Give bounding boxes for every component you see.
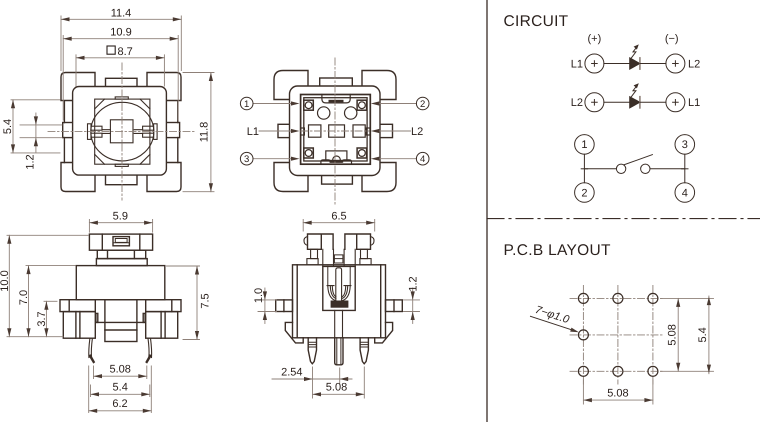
svg-text:4: 4 bbox=[682, 187, 688, 199]
arrows 5.4 bbox=[11, 100, 15, 109]
svg-text:6.2: 6.2 bbox=[112, 398, 127, 410]
dim 6.5 extension lines bbox=[303, 220, 375, 232]
cap tab bottom bbox=[322, 165, 353, 185]
pin extension lines bbox=[89, 366, 152, 413]
arrows 7.5 bbox=[195, 266, 199, 275]
right contact bracket bbox=[154, 124, 158, 140]
wing right inner edge a bbox=[164, 312, 166, 339]
terminal circle 1 bbox=[575, 135, 595, 155]
pcb dim 5.08 bottom line bbox=[583, 399, 653, 401]
corner contact bottom-right bbox=[357, 148, 367, 158]
LED D1 flash arrow bbox=[631, 47, 637, 59]
arrows 3.7 bbox=[44, 301, 48, 310]
edge tab right bbox=[378, 124, 393, 137]
keycap window outer bbox=[113, 237, 129, 246]
centerline horizontal bbox=[301, 130, 369, 132]
latch hook left bbox=[96, 313, 98, 322]
svg-text:L1: L1 bbox=[571, 58, 583, 70]
arrows 6.5 bbox=[303, 221, 312, 225]
terminal circle row1 left bbox=[585, 54, 604, 73]
svg-text:1: 1 bbox=[581, 139, 587, 151]
wing left inner edge a bbox=[75, 312, 77, 339]
wire horizontal right bbox=[650, 168, 685, 170]
arrows pcb 5.08 vertical bbox=[676, 298, 680, 307]
cap tab top inner line bbox=[320, 87, 353, 89]
bottom led housing bbox=[326, 151, 347, 161]
right contact rod bbox=[134, 130, 142, 134]
mount right foot bbox=[360, 259, 371, 265]
corner chamfer bottom-left bbox=[95, 154, 105, 164]
leader line terminal 2 bbox=[375, 103, 417, 105]
inner frame bump bottom bbox=[115, 164, 128, 166]
dim 8.7 extension lines bbox=[76, 55, 164, 86]
arrows 8.7 bbox=[76, 56, 85, 60]
dim 10.9 line bbox=[63, 38, 178, 40]
keycap base bbox=[97, 250, 145, 258]
corner tab bottom-right bbox=[147, 163, 181, 192]
dim 1.0 leaders bbox=[258, 300, 277, 312]
dim 10.9 extension lines bbox=[63, 36, 178, 121]
dim 5.9 line bbox=[89, 222, 152, 224]
pin left foot bbox=[88, 354, 95, 363]
junction tick right bbox=[682, 168, 688, 170]
svg-text:4: 4 bbox=[420, 154, 425, 165]
inner frame bump top bbox=[115, 97, 128, 99]
dim 3.7 line bbox=[45, 301, 47, 336]
arrows pcb 5.08 bottom bbox=[583, 398, 592, 402]
svg-text:5.08: 5.08 bbox=[666, 324, 678, 345]
LED D2 flash arrow bbox=[631, 86, 637, 98]
svg-text:L1: L1 bbox=[688, 97, 700, 109]
main body square bbox=[290, 86, 381, 176]
corner chamfer top-right bbox=[140, 99, 150, 109]
svg-text:6.5: 6.5 bbox=[331, 211, 346, 223]
plus sign row2 right bbox=[673, 100, 679, 106]
plunger circle bbox=[91, 102, 154, 161]
switch contact circle left bbox=[616, 164, 625, 173]
side contact right bbox=[366, 128, 370, 135]
leader line L2 bbox=[375, 130, 411, 132]
svg-text:7.0: 7.0 bbox=[18, 290, 30, 305]
keycap base notch left bbox=[107, 250, 109, 258]
dim 11.4 line bbox=[61, 18, 181, 20]
svg-text:11.4: 11.4 bbox=[111, 7, 132, 19]
corner contact bottom-left bbox=[304, 148, 314, 158]
svg-text:2.54: 2.54 bbox=[281, 366, 302, 378]
switch lever bbox=[624, 155, 653, 165]
terminal circle row1 right bbox=[666, 54, 685, 73]
svg-text:L2: L2 bbox=[411, 126, 423, 138]
svg-text:(+): (+) bbox=[588, 33, 602, 45]
hole callout arrowhead bbox=[570, 328, 579, 335]
mid square right bbox=[353, 125, 365, 137]
side tab right bbox=[386, 300, 403, 312]
arrows 10.0 bbox=[7, 235, 11, 244]
centerline vertical bbox=[121, 63, 123, 200]
spring right arcs bbox=[342, 286, 351, 301]
svg-text:P.C.B LAYOUT: P.C.B LAYOUT bbox=[504, 242, 611, 259]
leader line terminal 4 bbox=[375, 158, 417, 160]
LED D1 cathode bar bbox=[639, 58, 641, 69]
leader line L1 bbox=[259, 130, 295, 132]
pin right foot bbox=[145, 354, 152, 363]
wire vertical right bbox=[684, 154, 686, 183]
svg-text:1.2: 1.2 bbox=[408, 276, 420, 291]
wing left bbox=[63, 312, 95, 339]
hole A3 bbox=[648, 293, 658, 303]
dim 1.0 line bbox=[264, 288, 266, 324]
terminal circle 4 bbox=[416, 152, 429, 165]
mid square center bbox=[329, 125, 345, 137]
dim text square symbol bbox=[107, 46, 115, 54]
hole C2 bbox=[613, 366, 623, 376]
cap window bar bbox=[329, 100, 344, 103]
led hole right bbox=[345, 107, 357, 119]
arrow terminal 2 bbox=[371, 101, 380, 105]
hole A1 bbox=[578, 293, 588, 303]
corner tab top-right bbox=[147, 73, 181, 101]
svg-text:11.8: 11.8 bbox=[199, 122, 211, 143]
keycap top bbox=[89, 234, 152, 250]
corner tab top-left bbox=[274, 71, 308, 100]
dim 7.0 line bbox=[28, 266, 30, 337]
arrow terminal 4 bbox=[371, 157, 380, 161]
body inner edge right bbox=[380, 265, 382, 338]
grid centerline row mid bbox=[570, 334, 664, 336]
pcb dim 5.08 bottom extension lines bbox=[583, 379, 653, 405]
spring left arcs bbox=[327, 286, 336, 301]
arrows 5.08 bbox=[313, 392, 322, 396]
arrow terminal 1 bbox=[291, 101, 300, 105]
plunger pin bbox=[336, 268, 342, 301]
plus sign row1 right bbox=[673, 61, 679, 67]
arrows 5.4 bbox=[91, 392, 100, 396]
corner contact bottom-left circle bbox=[305, 150, 312, 157]
corner tab bottom-left bbox=[274, 163, 308, 192]
arrows 2.54 outside bbox=[304, 377, 313, 381]
grid centerline col mid bbox=[617, 286, 619, 385]
dim 5.08 line bbox=[313, 393, 365, 395]
wing right inner edge b bbox=[160, 312, 162, 339]
junction tick left bbox=[581, 168, 587, 170]
arrows pcb 5.4 vertical bbox=[707, 297, 711, 306]
hole A2 bbox=[613, 293, 623, 303]
plus sign row2 left bbox=[592, 100, 598, 106]
LED row 1 bbox=[571, 44, 701, 73]
center block bbox=[105, 300, 137, 342]
LED D1 triangle bbox=[630, 58, 640, 69]
bottom plate bbox=[321, 160, 352, 165]
arrow terminal 3 bbox=[291, 157, 300, 161]
svg-text:8.7: 8.7 bbox=[118, 46, 133, 58]
base plate inner square bbox=[304, 98, 367, 161]
pcb dim 5.4 vertical line bbox=[708, 296, 710, 374]
center block shelf line bbox=[96, 321, 145, 323]
pin left claw bbox=[89, 338, 93, 357]
svg-text:3: 3 bbox=[682, 139, 688, 151]
ear left hook bbox=[304, 237, 308, 246]
terminal circle 3 bbox=[675, 135, 695, 155]
pin left bbox=[308, 338, 316, 364]
dim 11.8 line bbox=[210, 73, 212, 192]
dim 5.4 leaders bbox=[11, 100, 60, 153]
edge tab bottom bbox=[106, 170, 138, 185]
left contact pad lower bbox=[91, 133, 102, 137]
arrows 5.08 bbox=[94, 374, 103, 378]
pcb dim leaders right bbox=[661, 298, 714, 371]
wire row2 right bbox=[640, 101, 666, 103]
keycap divider right bbox=[139, 234, 141, 250]
dim 1.2 line bbox=[35, 113, 37, 152]
dim 5.9 extension lines bbox=[89, 220, 152, 233]
switch contact circle right bbox=[641, 164, 650, 173]
corner tab bottom-right bbox=[362, 163, 396, 192]
pin right hatch bbox=[360, 342, 368, 347]
grid centerline col right bbox=[652, 286, 654, 385]
arrows 1.2 outside bbox=[411, 291, 415, 300]
svg-text:5.08: 5.08 bbox=[326, 382, 347, 394]
collar right divider bbox=[171, 300, 173, 312]
keycap window inner bbox=[115, 239, 127, 243]
svg-text:L2: L2 bbox=[688, 58, 700, 70]
left contact bracket bbox=[88, 124, 92, 140]
dim 6.5 line bbox=[303, 222, 375, 224]
centerline horizontal bbox=[48, 131, 194, 133]
pin right bbox=[360, 338, 368, 364]
terminal circle row2 right bbox=[666, 93, 685, 112]
svg-text:10.0: 10.0 bbox=[0, 270, 11, 291]
body inner edge left bbox=[296, 265, 298, 338]
edge tab left bbox=[278, 124, 293, 137]
switch sub-circuit bbox=[575, 135, 695, 203]
right contact pad upper bbox=[143, 126, 154, 130]
body outline bbox=[293, 265, 386, 338]
corner tab top-right bbox=[362, 71, 396, 100]
mount left neck bbox=[311, 249, 318, 258]
side tab right divider bbox=[393, 300, 395, 312]
terminal circle 1 bbox=[240, 97, 253, 110]
keycap base notch right bbox=[133, 250, 135, 258]
ear right bbox=[345, 234, 371, 249]
keycap divider left bbox=[101, 234, 103, 250]
svg-text:5.4: 5.4 bbox=[697, 327, 709, 342]
collar left divider bbox=[68, 300, 70, 312]
corner chamfer bottom-right bbox=[140, 154, 150, 164]
hole C3 bbox=[648, 366, 658, 376]
dim 5.08 line bbox=[94, 375, 147, 377]
dim 7.5 leaders bbox=[167, 266, 200, 340]
pin extension lines view4 bbox=[313, 367, 365, 398]
terminal circle 4 bbox=[675, 183, 695, 203]
LED D2 cathode bar bbox=[639, 97, 641, 108]
grid centerline row top bbox=[570, 297, 664, 299]
corner tab bottom-left bbox=[61, 163, 95, 192]
svg-text:3.7: 3.7 bbox=[36, 311, 48, 326]
edge tab top bbox=[106, 78, 138, 94]
latch hook right bbox=[143, 313, 145, 322]
svg-text:10.9: 10.9 bbox=[110, 27, 131, 39]
bottom led dome bbox=[333, 156, 341, 160]
arrows 1.0 outside bbox=[263, 291, 267, 300]
center block lower line bbox=[105, 329, 137, 331]
svg-text:2: 2 bbox=[420, 99, 425, 110]
mount right neck bbox=[361, 249, 368, 258]
svg-text:1.0: 1.0 bbox=[253, 288, 265, 303]
dim 11.8 leaders bbox=[183, 73, 214, 192]
corner contact top-right bbox=[357, 100, 367, 110]
mid square left bbox=[309, 125, 321, 137]
terminal circle row2 left bbox=[585, 93, 604, 112]
cap tab top bbox=[320, 78, 353, 95]
wire horizontal left bbox=[584, 168, 616, 170]
svg-text:5.08: 5.08 bbox=[109, 364, 130, 376]
dim 10.0 line bbox=[8, 235, 10, 336]
ear left bbox=[308, 234, 334, 249]
hole C1 bbox=[578, 366, 588, 376]
skirt wall right bbox=[177, 101, 179, 162]
arrows 6.2 bbox=[89, 409, 98, 413]
mount left foot bbox=[307, 259, 318, 265]
pin right claw bbox=[148, 338, 152, 357]
panel divider horizontal dash-dot line bbox=[487, 218, 760, 220]
pin shank in body bbox=[335, 310, 343, 337]
svg-text:(−): (−) bbox=[665, 33, 679, 45]
led hole left bbox=[318, 107, 330, 119]
corner tab top-left bbox=[61, 73, 95, 101]
ear right hook bbox=[371, 237, 375, 246]
sleeve bbox=[323, 266, 355, 310]
panel divider vertical line bbox=[486, 0, 488, 422]
tower right bbox=[344, 249, 355, 266]
plus sign row1 left bbox=[592, 61, 598, 67]
shaft grooves bbox=[334, 255, 343, 263]
corner chamfer top-left bbox=[95, 99, 105, 109]
pin left hatch bbox=[308, 342, 316, 347]
foot left bbox=[285, 322, 303, 343]
edge tab left bbox=[63, 123, 78, 138]
grid centerline row bottom bbox=[570, 370, 664, 372]
wing left inner edge b bbox=[79, 312, 81, 339]
pin center inner lines bbox=[337, 338, 341, 365]
arrows 10.9 bbox=[63, 37, 71, 41]
foot right bbox=[375, 322, 393, 343]
collar left bbox=[60, 300, 95, 312]
arrow L1 bbox=[291, 129, 300, 133]
svg-text:CIRCUIT: CIRCUIT bbox=[504, 13, 569, 30]
side tab left divider bbox=[283, 300, 285, 312]
wire row1 right bbox=[640, 63, 666, 65]
center square plunger boss bbox=[110, 120, 133, 143]
terminal circle 3 bbox=[240, 152, 253, 165]
svg-text:2: 2 bbox=[581, 187, 587, 199]
dim 3.7 leader top bbox=[44, 300, 57, 302]
bottom plate bar bbox=[330, 160, 343, 163]
pin center bbox=[335, 338, 343, 365]
svg-text:5.08: 5.08 bbox=[607, 387, 628, 399]
terminal circle 2 bbox=[575, 183, 595, 203]
svg-text:3: 3 bbox=[244, 154, 249, 165]
corner contact top-left bbox=[304, 100, 314, 110]
svg-text:L2: L2 bbox=[571, 97, 583, 109]
contact plug bbox=[331, 301, 347, 307]
svg-text:L1: L1 bbox=[247, 126, 259, 138]
main body square bbox=[73, 87, 167, 176]
hole callout arrow line bbox=[531, 316, 577, 331]
arrows 11.4 bbox=[61, 17, 70, 21]
leader line terminal 1 bbox=[253, 103, 295, 105]
base plate outer square bbox=[301, 95, 371, 165]
dim 8.7 line bbox=[76, 57, 164, 59]
arrows 11.8 bbox=[209, 73, 213, 82]
sleeve inner walls bbox=[328, 266, 350, 285]
arrow L2 bbox=[371, 129, 380, 133]
wire row2 left bbox=[604, 101, 630, 103]
side tab left bbox=[276, 300, 293, 312]
dim 2.54 line bbox=[272, 378, 352, 380]
corner contact top-left circle bbox=[305, 102, 312, 109]
left contact pad upper bbox=[91, 126, 102, 130]
LED D2 triangle bbox=[630, 97, 640, 108]
left contact rod bbox=[102, 130, 110, 134]
svg-text:1.2: 1.2 bbox=[25, 154, 37, 169]
corner contact bottom-right circle bbox=[359, 150, 366, 157]
dim 5.4 line bbox=[91, 393, 150, 395]
arrows 5.9 bbox=[89, 221, 98, 225]
corner contact top-right circle bbox=[359, 102, 366, 109]
arrows 1.2 outside bbox=[34, 116, 38, 125]
dim 5.4 line bbox=[12, 100, 14, 153]
svg-text:5.4: 5.4 bbox=[2, 119, 14, 134]
side contact left bbox=[301, 128, 305, 135]
svg-text:5.9: 5.9 bbox=[113, 211, 128, 223]
dim 10.0 leaders bbox=[7, 235, 88, 336]
dim 6.2 line bbox=[89, 410, 152, 412]
cap window under top tab bbox=[322, 95, 350, 103]
keycap window line bbox=[113, 242, 129, 244]
svg-text:5.4: 5.4 bbox=[113, 382, 128, 394]
grid centerline col left bbox=[582, 286, 584, 385]
arrows 7.0 bbox=[26, 266, 30, 275]
collar right bbox=[146, 300, 181, 312]
leader line terminal 3 bbox=[253, 158, 295, 160]
wing right bbox=[146, 312, 178, 339]
pcb dim 5.08 vertical line bbox=[677, 298, 679, 371]
terminal circle 2 bbox=[416, 97, 429, 110]
dim 7.0 leader top bbox=[26, 265, 75, 267]
wire vertical left bbox=[583, 154, 585, 183]
inner frame square bbox=[95, 99, 150, 164]
LED row 2 bbox=[571, 83, 701, 112]
svg-text:1: 1 bbox=[244, 99, 249, 110]
dim 7.5 line bbox=[196, 266, 198, 340]
stem flange bbox=[96, 259, 147, 266]
skirt wall left bbox=[63, 101, 65, 162]
wire row1 left bbox=[604, 63, 630, 65]
dim 1.2 leaders bbox=[20, 125, 62, 138]
body outline bbox=[76, 266, 165, 300]
dim 1.2 line bbox=[412, 288, 414, 324]
hole B1 bbox=[578, 330, 588, 340]
right contact pad lower bbox=[143, 133, 154, 137]
edge tab right bbox=[164, 123, 179, 138]
dim 11.4 extension lines bbox=[61, 16, 181, 71]
svg-text:7.5: 7.5 bbox=[200, 293, 212, 308]
tower left bbox=[323, 249, 334, 266]
centerline vertical bbox=[334, 58, 336, 205]
dim 1.2 leaders bbox=[404, 300, 420, 312]
